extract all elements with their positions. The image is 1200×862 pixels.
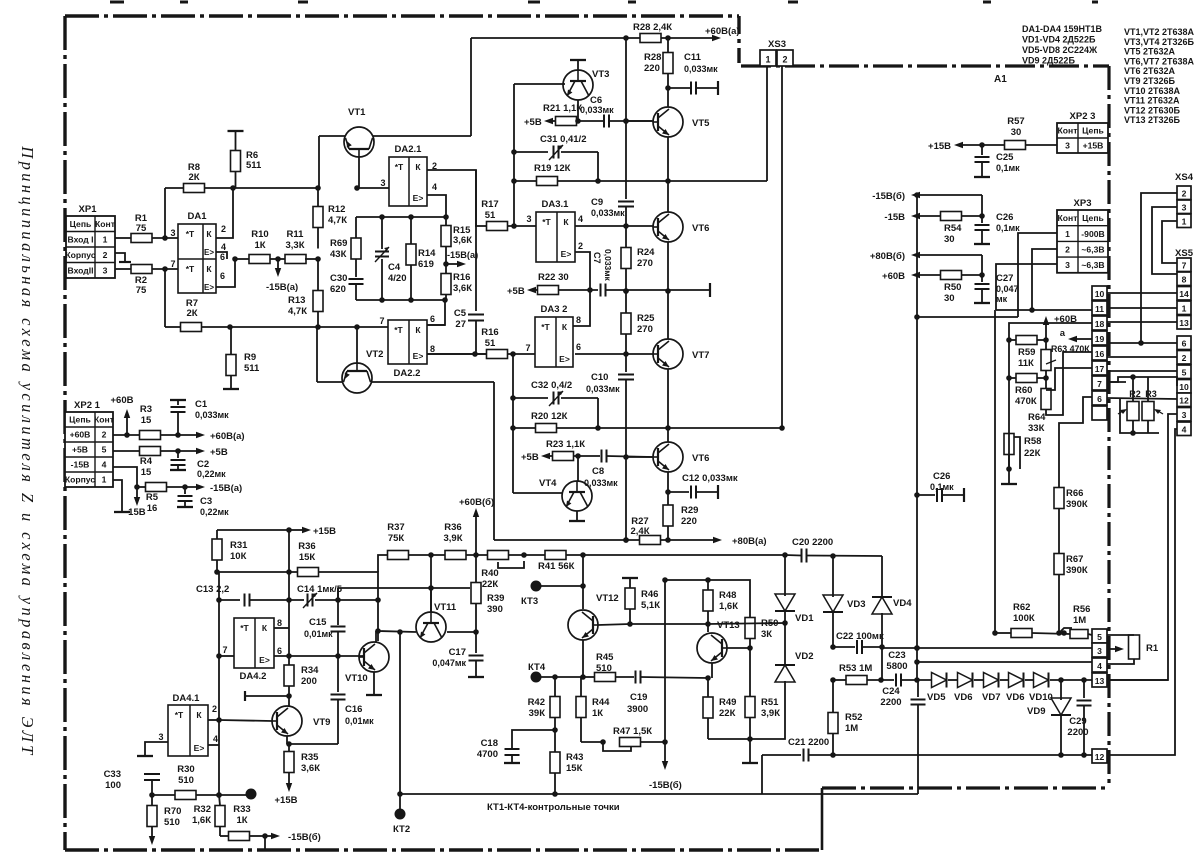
svg-text:5: 5: [1182, 368, 1187, 378]
R9 corpus bar: [223, 388, 239, 390]
svg-text:12: 12: [1095, 752, 1105, 762]
capacitor C27 0,047mk: [981, 275, 983, 282]
svg-text:10К: 10К: [230, 551, 247, 562]
svg-text:R39: R39: [487, 593, 504, 604]
svg-text:2: 2: [102, 430, 107, 440]
resistor R28 220: [663, 53, 673, 74]
svg-text:С15: С15: [309, 617, 327, 628]
wire y580 line to R48 R50: [665, 580, 750, 618]
svg-text:VT6: VT6: [692, 453, 709, 464]
wire DA2.2 pin8 line to R16: [427, 353, 487, 355]
svg-text:R22 30: R22 30: [538, 272, 569, 283]
wire box12 riser to XS5-4: [1107, 429, 1177, 755]
resistor R11 3,3K: [285, 255, 306, 264]
svg-text:R49: R49: [719, 697, 736, 708]
arrow +60V left: [920, 274, 940, 276]
svg-text:DA1-DA4 159НТ1В: DA1-DA4 159НТ1В: [1022, 24, 1103, 34]
svg-text:270: 270: [637, 258, 653, 269]
svg-text:VT9: VT9: [313, 717, 330, 728]
svg-text:R19 12К: R19 12К: [534, 163, 571, 174]
wire box17 to XS5-5: [1107, 370, 1177, 372]
arrow +60V up right: [1045, 325, 1047, 338]
svg-text:С32 0,4/2: С32 0,4/2: [531, 380, 572, 391]
svg-text:R41 56К: R41 56К: [538, 561, 575, 572]
wire R56 to box5: [1088, 634, 1092, 635]
wire VD10 to box13: [1050, 679, 1092, 681]
svg-text:DA2.2: DA2.2: [394, 368, 421, 379]
svg-text:R3: R3: [140, 404, 152, 415]
wire x665 supply column: [664, 580, 666, 742]
svg-text:0,033мк: 0,033мк: [580, 105, 614, 115]
wire VT8 base: [626, 456, 653, 458]
svg-text:2: 2: [578, 241, 583, 251]
svg-text:*Т: *Т: [395, 162, 404, 172]
diode VD1: [775, 594, 795, 611]
svg-text:R45: R45: [596, 652, 614, 663]
wire R7 line: [165, 326, 180, 328]
resistor R66 390K: [1054, 488, 1064, 509]
svg-text:0,22мк: 0,22мк: [197, 469, 226, 479]
wire C13 to C14: [250, 599, 304, 601]
wire VT4 base from x513: [513, 492, 563, 494]
resistor R46 5,1K: [625, 588, 635, 609]
resistor R43 15K: [550, 752, 560, 773]
wire DA4.1 pin2 to VT9 base: [219, 720, 272, 721]
wire corner x882 down to VD4: [881, 556, 883, 596]
capacitor C9 0,033mk rail: [625, 38, 627, 199]
arrow +80V(a): [712, 539, 714, 541]
transistor VT8: [653, 442, 683, 472]
resistor R5 16: [134, 484, 140, 490]
svg-text:VT1,VT2 2Т638А: VT1,VT2 2Т638А: [1124, 27, 1195, 37]
svg-text:VD2: VD2: [795, 651, 813, 662]
wire VD8 VD10: [1025, 679, 1034, 681]
resistor R51 3,9K: [745, 697, 755, 718]
svg-text:VT12: VT12: [596, 593, 619, 604]
svg-text:R1: R1: [1146, 643, 1159, 654]
resistor R14 619: [410, 217, 412, 244]
svg-text:3,3К: 3,3К: [285, 240, 304, 251]
resistor R22 30: [538, 286, 559, 295]
wire R4 to arrow: [161, 450, 197, 452]
svg-text:+60В: +60В: [111, 395, 134, 406]
wire C6 to VT5 base: [609, 120, 652, 122]
capacitor C15 0,01mk: [337, 588, 339, 600]
resistor R59 11K: [1016, 336, 1037, 345]
svg-text:R42: R42: [528, 697, 545, 708]
svg-text:ХР1: ХР1: [79, 204, 98, 215]
svg-text:Е>: Е>: [194, 743, 205, 753]
A1 right border: [1107, 66, 1110, 788]
svg-text:6: 6: [1097, 394, 1102, 404]
svg-text:С33: С33: [104, 769, 121, 780]
svg-text:11: 11: [1095, 304, 1104, 314]
svg-text:30: 30: [944, 293, 955, 304]
wire DA4.2 pin6 line: [274, 655, 363, 657]
wire DA4.2 pin8 stub: [274, 627, 289, 629]
svg-text:2: 2: [782, 55, 787, 65]
svg-text:2: 2: [103, 250, 108, 260]
svg-text:270: 270: [637, 324, 653, 335]
wire x431 column R37 to VT11: [430, 555, 432, 612]
svg-text:*Т: *Т: [186, 229, 195, 239]
resistor R27 2,4K: [640, 536, 661, 545]
svg-text:+5В: +5В: [524, 117, 542, 128]
svg-text:19: 19: [1095, 334, 1105, 344]
resistor R16 3,6K: [441, 274, 451, 295]
wire VT2 left leg: [317, 381, 342, 383]
wire x513 rail down: [512, 354, 514, 493]
resistor R33 1K horizontal: [220, 835, 229, 837]
wire VT1 stem to rail: [358, 157, 360, 188]
svg-text:ВходII: ВходII: [67, 265, 93, 275]
diode VD10: [1034, 673, 1049, 688]
svg-text:1,6К: 1,6К: [719, 601, 738, 612]
wire VT13 collector right: [727, 647, 750, 649]
capacitor C20 2200: [801, 549, 803, 563]
svg-text:4: 4: [213, 734, 218, 744]
svg-text:Конт: Конт: [1058, 213, 1078, 223]
svg-text:С30: С30: [330, 273, 347, 284]
svg-text:+60В: +60В: [882, 271, 905, 282]
svg-text:С20 2200: С20 2200: [792, 537, 833, 548]
svg-text:0,033мк: 0,033мк: [603, 249, 613, 282]
svg-text:3: 3: [103, 265, 108, 275]
svg-text:Цепь: Цепь: [1082, 213, 1104, 223]
svg-text:1К: 1К: [236, 815, 247, 826]
wire R47 to -15V(b) node: [641, 741, 666, 743]
test point KT1: [246, 789, 257, 800]
svg-text:R52: R52: [845, 712, 862, 723]
wire R53 to C23: [867, 679, 894, 681]
transistor VT2: [342, 363, 372, 393]
resistor R28 2,4K: [640, 34, 661, 43]
wire VT7 emitter down: [667, 369, 669, 442]
svg-text:С24: С24: [882, 686, 900, 697]
wire DA3.1 pin4 to C9 rail: [575, 225, 626, 227]
svg-text:3: 3: [1182, 203, 1187, 213]
wire R52 to C21 line: [832, 734, 834, 756]
svg-text:5800: 5800: [886, 661, 907, 672]
svg-text:А1: А1: [994, 74, 1007, 85]
arrow +80V(b) left: [920, 254, 982, 256]
svg-text:1М: 1М: [845, 723, 858, 734]
wire +80Vb corner: [981, 255, 983, 275]
svg-text:2: 2: [1182, 353, 1187, 363]
svg-text:R5: R5: [146, 492, 159, 503]
svg-text:VT2: VT2: [366, 349, 383, 360]
svg-text:0,033мк: 0,033мк: [684, 64, 718, 74]
svg-text:R69: R69: [330, 238, 347, 249]
svg-text:43К: 43К: [330, 249, 347, 260]
svg-text:2К: 2К: [186, 308, 197, 319]
svg-text:18: 18: [1095, 319, 1105, 329]
svg-text:100: 100: [105, 780, 121, 791]
wire C22 line to box3 line: [882, 647, 1092, 649]
wire VT3 base line: [514, 83, 565, 85]
wire +15V line: [217, 529, 290, 531]
wire C20 line: [785, 554, 801, 557]
svg-text:VT11: VT11: [434, 602, 457, 613]
wire DA3.2 pin8 up: [573, 290, 590, 326]
svg-text:33К: 33К: [1028, 423, 1045, 434]
wire DA2.2 pin8 to R16-51: [427, 353, 487, 355]
wire DA4.1 pin3 corpus: [145, 742, 168, 755]
svg-text:R56: R56: [1073, 604, 1090, 615]
svg-text:С31 0,41/2: С31 0,41/2: [540, 134, 586, 145]
frame top border: [65, 14, 739, 17]
svg-text:VT5: VT5: [692, 118, 710, 129]
svg-text:R66: R66: [1066, 488, 1083, 499]
wire VT10 top stem: [375, 631, 377, 642]
capacitor C21 2200: [762, 754, 801, 756]
wire VD4 down: [881, 613, 883, 647]
wire VD1 to VD2: [784, 612, 786, 664]
wire box4 to R1 bottom: [1107, 659, 1134, 664]
svg-text:R24: R24: [637, 247, 655, 258]
svg-text:+5В: +5В: [210, 447, 228, 458]
op-amp DA1: [178, 224, 216, 293]
wire box18 to XS5-13: [1107, 321, 1177, 323]
wire corner up to +60V line: [470, 38, 472, 136]
resistor R10 1K: [249, 255, 270, 264]
svg-text:С27: С27: [996, 273, 1013, 284]
svg-text:К: К: [196, 710, 202, 720]
wire box6 to R66 column: [1059, 397, 1092, 488]
svg-text:+15В: +15В: [275, 795, 298, 806]
svg-text:Цепь: Цепь: [70, 219, 92, 229]
wire box10 to XS5-14: [1107, 292, 1177, 294]
resistor R56 1M trimmer: [1070, 630, 1088, 639]
svg-text:DA4.2: DA4.2: [240, 671, 267, 682]
svg-text:Конт: Конт: [1058, 126, 1078, 136]
wire DA2.1 pin2 to C5 rail: [427, 170, 476, 226]
arrow -15V(b) left: [920, 194, 982, 196]
svg-text:R12: R12: [328, 204, 345, 215]
svg-text:VD6: VD6: [954, 692, 972, 703]
wire XP1 pin3 to R2: [115, 268, 131, 270]
diode VD2: [775, 665, 795, 682]
resistor R42 39K: [550, 697, 560, 718]
wire R66 to R67: [1058, 509, 1060, 555]
arrow +15V left: [963, 144, 982, 146]
transistor VT3: [563, 70, 593, 100]
wire long bottom line: [400, 793, 918, 795]
svg-text:3,6К: 3,6К: [301, 763, 320, 774]
svg-text:VT3,VT4 2Т326Б: VT3,VT4 2Т326Б: [1124, 37, 1195, 47]
svg-text:К: К: [415, 162, 421, 172]
svg-text:R25: R25: [637, 313, 655, 324]
+5V R23 line: [550, 455, 552, 457]
capacitor C5 27: [475, 170, 477, 311]
resistor R69 43K: [351, 238, 361, 259]
wire R39 column: [475, 555, 477, 583]
svg-text:С16: С16: [345, 704, 362, 715]
wire XP2 pin4 bend down: [113, 467, 137, 487]
wire R6 top to corpus: [235, 132, 237, 151]
svg-text:КТ1-КТ4-контрольные точки: КТ1-КТ4-контрольные точки: [487, 802, 620, 813]
svg-text:Конт: Конт: [94, 415, 114, 425]
resistor R41 56K: [545, 551, 566, 560]
svg-text:VT4: VT4: [539, 478, 557, 489]
svg-text:3К: 3К: [761, 629, 772, 640]
op-amp DA3.2: [535, 317, 573, 367]
wire +60V(a) top line: [471, 37, 640, 39]
svg-text:К: К: [415, 325, 421, 335]
resistor R31 10K: [216, 530, 218, 539]
svg-text:15: 15: [141, 415, 152, 426]
svg-text:Цепь: Цепь: [69, 415, 91, 425]
svg-text:510: 510: [596, 663, 612, 674]
capacitor C7 0,033mk vertical text: [600, 284, 602, 297]
svg-text:39К: 39К: [529, 708, 546, 719]
svg-text:С8: С8: [592, 466, 604, 477]
svg-text:R60: R60: [1015, 385, 1032, 396]
svg-text:16: 16: [1095, 349, 1105, 359]
wire XP1 pin2 corpus stub: [115, 253, 125, 262]
arrow -15V(a): [195, 486, 197, 488]
transistor VT13: [697, 633, 727, 663]
wire XS4-2 drop to box19 line: [1141, 193, 1177, 343]
svg-text:0,01мк: 0,01мк: [345, 716, 374, 726]
wire R40 to R41: [509, 554, 546, 556]
resistor R47 1,5K trimmer: [620, 738, 641, 747]
wire x917 rail: [916, 195, 918, 680]
wire y661 line to box4: [917, 661, 1092, 663]
svg-text:VD7: VD7: [982, 692, 1000, 703]
svg-text:6: 6: [430, 314, 435, 324]
svg-text:VD3: VD3: [847, 599, 865, 610]
arrow box3 to R1 wiper: [1107, 648, 1115, 650]
A1 edge connector boxes: [1092, 286, 1107, 300]
svg-text:2: 2: [1065, 244, 1070, 254]
resistor R63 470K trimmer: [1041, 350, 1051, 371]
wire C23 to diode string: [901, 679, 932, 681]
wire box5 to R1 top: [1107, 634, 1134, 636]
transistor VT11: [416, 612, 446, 642]
wire x400 column down to KT2 line: [399, 632, 401, 794]
svg-text:3,9К: 3,9К: [443, 533, 462, 544]
svg-text:С25: С25: [996, 152, 1014, 163]
svg-text:511: 511: [244, 363, 260, 374]
svg-text:XS3: XS3: [768, 39, 786, 50]
svg-text:R29: R29: [681, 505, 698, 516]
diode VD9 vertical: [1060, 680, 1062, 700]
wire R57 to XP2-3: [1026, 144, 1058, 146]
svg-text:R14: R14: [418, 248, 436, 259]
svg-text:3: 3: [1065, 260, 1070, 270]
svg-text:VD5-VD8 2С224Ж: VD5-VD8 2С224Ж: [1022, 45, 1098, 55]
svg-text:С1: С1: [195, 399, 208, 410]
resistor R36 3,9K: [445, 551, 466, 560]
svg-text:+15В: +15В: [313, 526, 336, 537]
svg-text:7: 7: [222, 645, 227, 655]
wire R24 down: [625, 269, 627, 314]
svg-text:Принципиальная схема усилителя: Принципиальная схема усилителя Z и схема…: [18, 145, 37, 757]
resistor R35 3,6K: [284, 752, 294, 773]
svg-text:3: 3: [380, 178, 385, 188]
arrow -15B(a) right: [446, 263, 457, 265]
wire box13 to x1168: [1107, 679, 1168, 681]
svg-text:7: 7: [525, 343, 530, 353]
resistor R53 1M: [846, 676, 867, 685]
capacitor C2 0,22mk: [177, 451, 179, 458]
svg-text:R33: R33: [233, 804, 250, 815]
svg-text:5: 5: [1097, 632, 1102, 642]
svg-text:R21 1,1К: R21 1,1К: [543, 103, 582, 114]
wire VT11 top stem: [430, 588, 432, 612]
wire DA4.2 pin7 stub: [219, 655, 234, 657]
svg-text:15: 15: [141, 467, 152, 478]
svg-text:22К: 22К: [1024, 448, 1041, 459]
wire VT5 base: [626, 120, 653, 122]
svg-text:Е>: Е>: [259, 655, 270, 665]
A1 edge connector box 12: [1092, 749, 1107, 763]
svg-text:-15В: -15В: [71, 460, 90, 470]
resistor R54 30: [941, 212, 962, 221]
svg-text:-15В(а): -15В(а): [210, 483, 242, 494]
svg-text:1: 1: [1182, 217, 1187, 227]
wire box17 jog: [1046, 368, 1092, 390]
resistor R15 3,6K: [441, 226, 451, 247]
diode VD8: [1009, 673, 1024, 688]
svg-text:3,9К: 3,9К: [761, 708, 780, 719]
svg-text:14: 14: [1179, 289, 1189, 299]
svg-text:4: 4: [102, 460, 107, 470]
diode VD3: [832, 556, 834, 597]
svg-text:6: 6: [576, 342, 581, 352]
wire R15 to R16: [445, 247, 447, 275]
resistor R6 511: [231, 151, 241, 172]
svg-text:С10: С10: [591, 372, 608, 383]
svg-text:51: 51: [485, 338, 496, 349]
VT3 corpus top: [577, 61, 579, 70]
svg-text:4: 4: [221, 242, 226, 252]
wire R1 to DA1 pin3: [152, 237, 178, 239]
svg-text:13: 13: [1179, 318, 1189, 328]
wire box19 to XS5-6: [1107, 342, 1177, 344]
resistor R48 1,6K: [703, 590, 713, 611]
svg-text:R11: R11: [287, 229, 305, 240]
svg-text:R2: R2: [1129, 389, 1141, 399]
wire VD7 VD8: [1000, 679, 1009, 681]
svg-text:R64: R64: [1028, 412, 1046, 423]
frame left border: [63, 16, 66, 850]
svg-text:4: 4: [578, 214, 583, 224]
capacitor C1 0,033mk: [170, 399, 186, 401]
wire VT9 emitter down: [286, 736, 288, 744]
svg-text:R3: R3: [1145, 389, 1157, 399]
svg-text:ХР2 1: ХР2 1: [74, 400, 101, 411]
A1 edge connector spare box: [1092, 406, 1107, 420]
wire R10 to R11: [270, 258, 286, 260]
svg-text:R9: R9: [244, 352, 256, 363]
svg-text:*Т: *Т: [240, 623, 249, 633]
resistor R4 15: [140, 447, 161, 456]
trimmer R2: [1127, 402, 1139, 421]
resistor R9 511: [226, 355, 236, 376]
svg-text:+60В(б): +60В(б): [459, 497, 494, 508]
svg-text:R17: R17: [481, 199, 498, 210]
svg-text:R70: R70: [164, 806, 181, 817]
op-amp DA4.2: [234, 618, 274, 668]
resistor R7 2K: [181, 323, 202, 332]
wire C21 line to box12: [809, 754, 1093, 756]
wire R50 to R51: [749, 639, 751, 698]
svg-text:1: 1: [765, 55, 770, 65]
svg-text:Е>: Е>: [204, 248, 214, 257]
resistor R58 22K: [1004, 434, 1014, 455]
